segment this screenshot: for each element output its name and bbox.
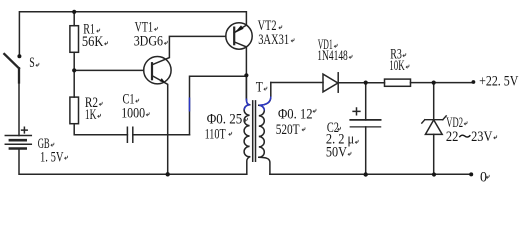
svg-text:520T: 520T [276, 122, 300, 138]
svg-text:Φ0. 12: Φ0. 12 [278, 107, 313, 123]
svg-text:10K: 10K [389, 58, 405, 74]
svg-text:56K: 56K [82, 34, 104, 50]
svg-text:23V: 23V [471, 129, 493, 145]
svg-text:3AX31: 3AX31 [258, 32, 289, 48]
svg-text:1000: 1000 [121, 106, 145, 122]
svg-text:1. 5V: 1. 5V [40, 150, 64, 166]
svg-text:1N4148: 1N4148 [317, 48, 348, 64]
svg-text:22: 22 [446, 129, 459, 145]
svg-text:+22. 5V: +22. 5V [479, 74, 519, 90]
svg-text:110T: 110T [205, 126, 226, 142]
svg-text:50V: 50V [326, 145, 348, 161]
svg-text:0: 0 [480, 170, 487, 186]
svg-text:S: S [29, 55, 35, 71]
svg-text:Φ0. 25: Φ0. 25 [207, 112, 243, 128]
svg-text:T: T [256, 79, 263, 95]
svg-text:1K: 1K [85, 107, 97, 123]
svg-text:3DG6: 3DG6 [134, 34, 163, 50]
